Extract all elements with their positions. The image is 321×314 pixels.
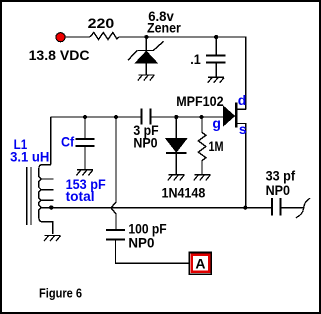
- port A box: [189, 253, 211, 275]
- capacitor 3 pF: [142, 109, 151, 125]
- break squiggle (to antenna): [296, 198, 310, 218]
- inductor L1: [39, 117, 54, 234]
- junction at zener node: [144, 35, 148, 39]
- wire 100 pF to port A: [116, 241, 190, 264]
- ground under 1N4148: [168, 175, 185, 181]
- wire crossover from gate rail to 100 pF (hops bottom rail): [111, 117, 116, 229]
- zener diode 6.8v: [128, 37, 164, 75]
- junction at .1 cap node: [214, 35, 218, 39]
- svg-text:Cf: Cf: [61, 133, 74, 149]
- wire 3pF to gate: [152, 116, 224, 118]
- svg-text:Figure 6: Figure 6: [39, 287, 82, 301]
- svg-text:d: d: [238, 92, 247, 108]
- junction at 1N4148: [174, 115, 178, 119]
- ground under zener: [138, 75, 155, 81]
- junction at Cf: [83, 115, 87, 119]
- wire top rail to drain corner: [119, 37, 246, 109]
- ground under Cf: [76, 170, 93, 176]
- svg-text:total: total: [66, 188, 95, 204]
- capacitor 33 pf: [272, 198, 280, 216]
- wire 33pf to break: [281, 207, 303, 209]
- resistor R1 220: [90, 33, 119, 40]
- svg-text:13.8 VDC: 13.8 VDC: [29, 47, 90, 63]
- svg-text:MPF102: MPF102: [176, 93, 224, 109]
- ground under L1: [44, 236, 61, 242]
- svg-text:1N4148: 1N4148: [162, 185, 206, 201]
- svg-text:.1: .1: [190, 51, 201, 67]
- capacitor Cf: [76, 117, 95, 170]
- tap junction on L1: [49, 205, 53, 209]
- svg-text:g: g: [212, 115, 221, 131]
- svg-text:1M: 1M: [209, 138, 224, 154]
- capacitor 100 pF: [106, 230, 125, 240]
- svg-text:3.1 uH: 3.1 uH: [10, 149, 49, 165]
- node VDC input (red terminal): [56, 33, 65, 42]
- svg-text:s: s: [239, 121, 247, 137]
- svg-text:NP0: NP0: [133, 135, 157, 151]
- junction at output tap: [114, 115, 118, 119]
- resistor 1M: [198, 117, 206, 175]
- diode 1N4148: [166, 117, 187, 175]
- wire dot to R1: [65, 36, 90, 38]
- transistor Q1 MPF102 (JFET): [223, 103, 246, 208]
- svg-text:NP0: NP0: [266, 182, 291, 198]
- ground under 1M: [194, 175, 211, 181]
- svg-text:A: A: [195, 256, 205, 272]
- wire gate rail: [51, 116, 142, 118]
- svg-text:220: 220: [88, 15, 115, 31]
- junction at 1M: [199, 115, 203, 119]
- capacitor .1: [206, 37, 225, 77]
- inductor core lines: [27, 167, 31, 225]
- junction at source: [243, 206, 247, 210]
- wire bottom rail (tap to 33pf): [41, 207, 271, 209]
- svg-text:Zener: Zener: [147, 20, 181, 36]
- svg-text:NP0: NP0: [128, 235, 154, 251]
- ground under .1 cap: [208, 77, 225, 83]
